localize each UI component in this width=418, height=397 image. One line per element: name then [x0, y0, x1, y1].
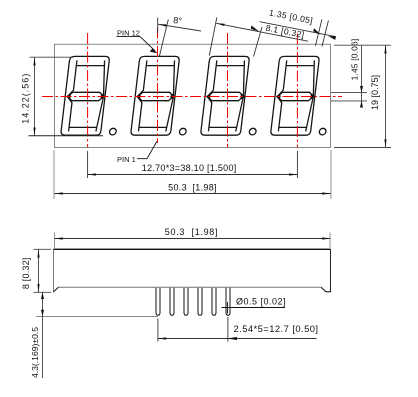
- digit 4: [270, 56, 334, 135]
- dim 38.10 left extension: [87, 151, 89, 178]
- dim 1.45 arrow up: [360, 86, 363, 93]
- angle dim vertical reference: [157, 18, 159, 34]
- dim 1.45 upper extension: [331, 92, 367, 94]
- digit 1: [61, 56, 125, 135]
- dim 2.54 dimension line: [158, 338, 317, 340]
- digit 4 center line: [296, 34, 298, 148]
- dim 50.3 top-view right extension: [330, 150, 332, 199]
- svg-text:8°: 8°: [173, 15, 183, 26]
- dim 1.35 inner extension: [315, 20, 322, 46]
- dim 8.1 left extension: [209, 18, 217, 56]
- dim 8 bottom extension: [34, 291, 52, 293]
- pin 2: [170, 288, 174, 316]
- dim 4.3 arrow down: [41, 310, 44, 317]
- dim 19 top extension: [334, 44, 391, 46]
- body right chamfer: [321, 249, 330, 291]
- svg-text:PIN 1: PIN 1: [117, 155, 136, 164]
- dim 2.54 left extension: [157, 319, 159, 342]
- dim 8.1 arrow at right ext: [251, 26, 260, 32]
- dia 0.5 leader line: [222, 307, 286, 309]
- angle dim slant reference: [159, 20, 168, 57]
- svg-text:19 [0.75]: 19 [0.75]: [370, 75, 380, 110]
- dim 8.1 dimension line: [216, 23, 308, 41]
- digit 3 center line: [227, 33, 229, 147]
- dim 1.35 dimension line: [260, 22, 337, 37]
- body top edge: [54, 248, 331, 250]
- dim 2.54 right extension: [227, 317, 229, 342]
- dim 38.10 right extension: [296, 151, 298, 178]
- pin 6: [226, 288, 230, 316]
- dim 14.22 bottom extension line: [29, 135, 104, 137]
- pin 1: [156, 288, 160, 316]
- dim 1.45 dimension line: [361, 45, 363, 107]
- pin 4: [198, 288, 202, 316]
- dim 4.3 dimension line: [42, 292, 44, 378]
- body outline: [54, 249, 331, 291]
- svg-text:14.22(.56): 14.22(.56): [21, 73, 31, 124]
- digit 3: [200, 56, 264, 135]
- body left chamfer: [54, 287, 59, 292]
- dia 0.5 leader tick: [227, 302, 229, 314]
- dim 50.3 side-view left extension: [54, 233, 56, 249]
- PIN 12 leader: [140, 37, 155, 51]
- dim 50.3 top-view dimension line: [55, 193, 331, 195]
- pin 3: [184, 288, 188, 316]
- svg-text:50.3 [1.98]: 50.3 [1.98]: [168, 182, 217, 192]
- svg-text:Ø0.5 [0.02]: Ø0.5 [0.02]: [236, 296, 286, 306]
- digit 2: [131, 56, 195, 135]
- dim 8 dimension line: [38, 249, 40, 292]
- dim 1.35 arrow left: [313, 28, 321, 35]
- dim 1.35 outer extension: [322, 21, 328, 47]
- svg-text:12.70*3=38.10 [1.500]: 12.70*3=38.10 [1.500]: [142, 163, 237, 173]
- dim 50.3 side-view right extension: [329, 233, 331, 249]
- svg-text:4.3(.169)±0.5: 4.3(.169)±0.5: [30, 327, 40, 378]
- svg-text:PIN 12: PIN 12: [117, 28, 140, 37]
- dim 14.22 dimension line: [34, 57, 36, 136]
- pin 5: [212, 288, 216, 316]
- dim 50.3 side-view dimension line: [55, 238, 331, 240]
- dim 8 top extension: [34, 248, 52, 250]
- dim 1.35 arrow right: [328, 36, 336, 40]
- svg-text:8.1 [0.32]: 8.1 [0.32]: [265, 23, 306, 40]
- dim 4.3 pin-end extension line: [36, 316, 158, 318]
- digit 2 center line: [157, 28, 159, 144]
- dim 19 bottom extension: [334, 147, 391, 149]
- dim 38.10 dimension line: [88, 174, 298, 176]
- dim 50.3 top-view left extension: [53, 150, 55, 199]
- dim 4.3 arrow up: [41, 292, 44, 299]
- digit 1 center line: [87, 33, 89, 147]
- dim 19 dimension line: [385, 45, 387, 147]
- PIN 1 leader: [137, 142, 157, 159]
- dim 14.22 top extension line: [30, 56, 75, 58]
- svg-text:1.35 [0.05]: 1.35 [0.05]: [268, 7, 314, 25]
- dim 1.45 arrow down: [360, 101, 363, 108]
- horizontal center line: [42, 96, 342, 98]
- dim 8.1 right extension: [254, 27, 263, 57]
- angle dim line: [158, 24, 201, 31]
- svg-text:2.54*5=12.7 [0.50]: 2.54*5=12.7 [0.50]: [234, 323, 319, 334]
- PIN 12 leader arrowhead: [150, 48, 158, 53]
- dim 2.54 arrow at right extension: [228, 337, 237, 340]
- dim 1.45 lower extension: [331, 100, 367, 102]
- PIN 12 underline: [117, 36, 141, 38]
- svg-text:50.3 [1.98]: 50.3 [1.98]: [165, 227, 218, 237]
- package outline: [55, 44, 331, 147]
- svg-text:8 [0.32]: 8 [0.32]: [21, 257, 31, 289]
